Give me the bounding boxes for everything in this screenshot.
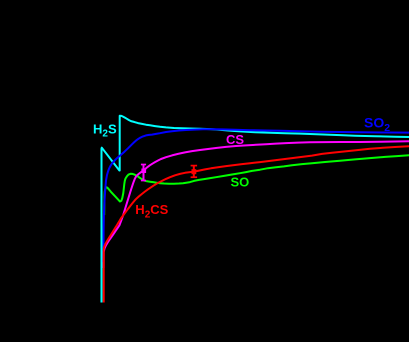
- curve SO (green): [104, 155, 409, 215]
- error bar H2CS observation (red): [191, 166, 198, 178]
- curve H2CS (red): [104, 146, 409, 302]
- marker CS observation (magenta square): [141, 169, 146, 174]
- curve H2S (cyan): [102, 116, 409, 303]
- svg-text:SO: SO: [231, 175, 250, 190]
- curve SO2 (blue): [103, 129, 409, 262]
- error bar CS observation (magenta): [141, 165, 146, 181]
- svg-text:CS: CS: [226, 132, 244, 147]
- marker H2CS observation (red square): [192, 169, 197, 174]
- curve CS (magenta): [104, 141, 409, 268]
